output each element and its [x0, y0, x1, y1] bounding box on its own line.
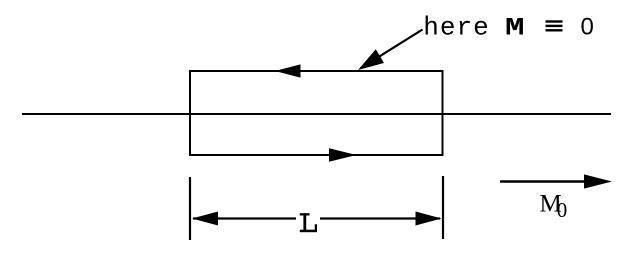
- right dimension tick: [442, 176, 444, 239]
- contour rectangle: [190, 71, 443, 155]
- axis line: [22, 113, 611, 115]
- dimension line left segment: [193, 217, 296, 219]
- identity sign (three bars): [546, 20, 563, 22]
- dimension line right segment: [320, 217, 440, 219]
- leader arrowhead: [358, 49, 384, 70]
- svg-text:here: here: [423, 13, 489, 43]
- left dimension arrowhead: [192, 212, 218, 226]
- svg-text:M: M: [505, 14, 525, 42]
- M0 arrowhead: [584, 174, 612, 188]
- leader line from label to contour: [361, 30, 423, 69]
- svg-text:0: 0: [581, 14, 594, 41]
- label L (drawn as Courier-style strokes): [300, 213, 317, 232]
- M0 vector arrow: [500, 180, 590, 183]
- svg-text:0: 0: [557, 198, 568, 222]
- top-edge arrowhead (pointing left): [275, 64, 301, 77]
- left dimension tick: [189, 177, 191, 240]
- right dimension arrowhead: [416, 212, 442, 226]
- bottom-edge arrowhead (pointing right): [329, 148, 357, 162]
